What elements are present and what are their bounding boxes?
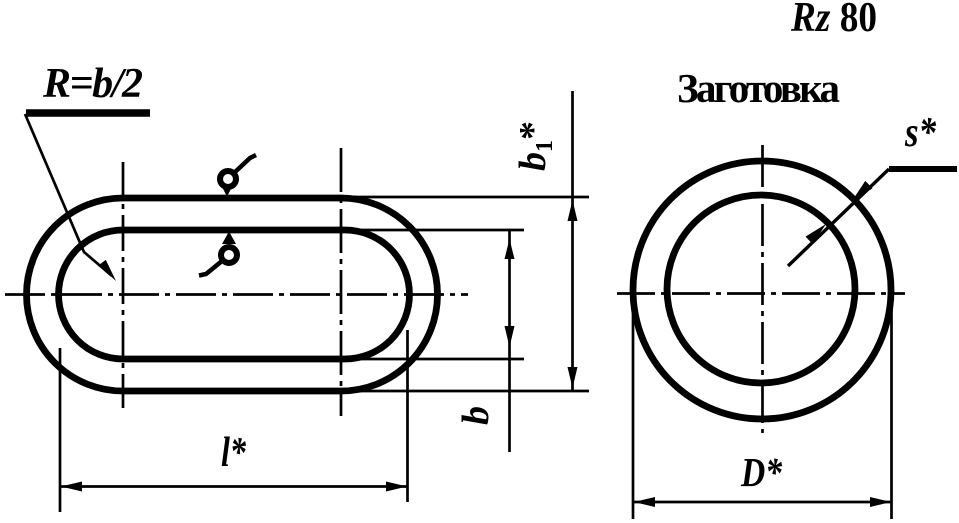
extension line l* right — [406, 330, 409, 502]
arrow D* right — [870, 497, 891, 507]
bottom contour symbol circle — [221, 247, 237, 263]
outer circle of blank — [633, 161, 891, 419]
leader line R=b/2 — [25, 114, 112, 276]
dimension line l* — [60, 485, 408, 488]
bottom contour symbol arrow — [222, 232, 236, 245]
horizontal centerline of blank — [617, 292, 905, 295]
svg-text:b1*: b1* — [512, 121, 558, 171]
outer contour of link (side view) — [26, 198, 437, 391]
vertical centerline of blank — [761, 145, 764, 433]
bottom contour symbol tail — [199, 261, 222, 276]
extension line l* left — [59, 348, 62, 512]
svg-text:D*: D* — [740, 449, 782, 495]
arrow D* left — [634, 497, 655, 507]
dimension line b — [508, 230, 511, 452]
extension line D* right — [890, 278, 893, 519]
s* underline — [889, 166, 957, 172]
horizontal centerline of link — [5, 293, 468, 296]
arrow b1 top — [568, 200, 578, 221]
top contour symbol tail — [234, 155, 256, 173]
extension line from outer bottom — [341, 390, 589, 393]
extension line D* left — [632, 278, 635, 519]
svg-text:R=b/2: R=b/2 — [42, 61, 143, 107]
svg-text:Rz 80: Rz 80 — [790, 0, 877, 41]
svg-text:Заготовка: Заготовка — [677, 65, 840, 111]
dimension line b1 — [571, 91, 574, 391]
inner contour of link — [59, 230, 410, 359]
svg-text:s*: s* — [904, 110, 937, 156]
extension line from inner bottom — [345, 358, 524, 361]
arrow b top — [505, 239, 515, 259]
s* leader diagonal — [788, 169, 889, 266]
s* arrow outer — [852, 181, 873, 201]
dimension line D* — [633, 501, 892, 504]
arrow of R leader — [99, 260, 116, 281]
svg-text:b: b — [455, 406, 497, 425]
arrow b1 bottom — [568, 367, 578, 388]
arrow l* left — [61, 482, 82, 492]
left arc vertical centerline — [122, 162, 125, 408]
s* arrow inner — [806, 224, 827, 244]
svg-text:l*: l* — [221, 430, 247, 476]
extension line from inner top — [345, 229, 524, 232]
top contour symbol circle — [220, 171, 236, 187]
inner circle of blank — [667, 195, 855, 383]
underline of R=b/2 — [26, 109, 150, 117]
right arc vertical centerline — [340, 148, 343, 416]
arrow b bottom — [505, 326, 515, 347]
arrow l* right — [386, 482, 407, 492]
extension line from outer top — [341, 196, 589, 199]
top contour symbol arrow — [221, 184, 234, 197]
